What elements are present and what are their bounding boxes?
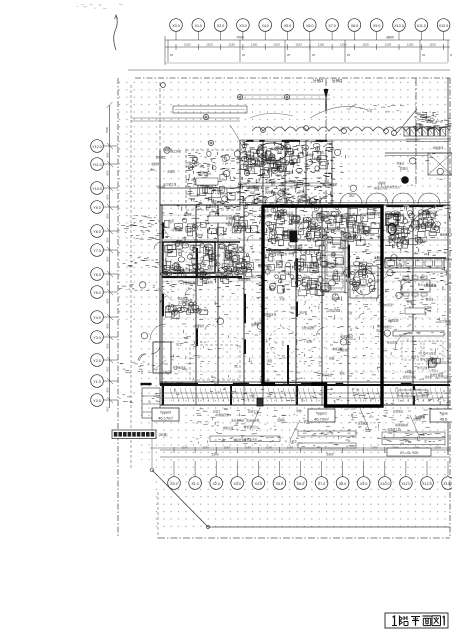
svg-text:X2.0: X2.0 bbox=[217, 24, 224, 28]
svg-text:場排確納井: 場排確納井 bbox=[395, 423, 408, 427]
svg-text:7500: 7500 bbox=[105, 126, 109, 133]
svg-text:柱物確床床: 柱物確床床 bbox=[173, 365, 186, 369]
svg-text:床排: 床排 bbox=[267, 266, 273, 270]
svg-text:X11.0: X11.0 bbox=[417, 24, 426, 28]
svg-text:排気壁扉: 排気壁扉 bbox=[198, 171, 209, 175]
svg-text:Y3.0: Y3.0 bbox=[93, 336, 100, 340]
svg-text:800: 800 bbox=[106, 152, 110, 157]
svg-text:電排: 電排 bbox=[288, 171, 294, 175]
svg-text:水湯換記: 水湯換記 bbox=[172, 228, 183, 232]
svg-text:管気: 管気 bbox=[290, 306, 296, 310]
svg-text:1150: 1150 bbox=[245, 446, 252, 450]
svg-text:防井管金火: 防井管金火 bbox=[387, 185, 400, 189]
svg-text:Y5.0: Y5.0 bbox=[93, 291, 100, 295]
svg-text:所床井工: 所床井工 bbox=[197, 273, 208, 277]
svg-text:Y12.0: Y12.0 bbox=[92, 145, 101, 149]
svg-text:物防記納: 物防記納 bbox=[427, 210, 438, 214]
svg-text:X4.0: X4.0 bbox=[261, 24, 268, 28]
svg-text:3階建坪: 3階建坪 bbox=[433, 145, 444, 150]
svg-text:防換井壁: 防換井壁 bbox=[446, 257, 452, 261]
svg-text:Y11.0: Y11.0 bbox=[92, 163, 101, 167]
svg-text:電気: 電気 bbox=[251, 275, 257, 279]
svg-text:X12.0: X12.0 bbox=[422, 482, 431, 486]
svg-text:確火: 確火 bbox=[150, 168, 156, 172]
svg-text:25: 25 bbox=[422, 53, 426, 57]
svg-text:床扉湯事梁: 床扉湯事梁 bbox=[324, 182, 337, 186]
svg-text:井梁: 井梁 bbox=[311, 217, 317, 221]
svg-text:水床号所: 水床号所 bbox=[194, 324, 205, 328]
svg-text:天認扉: 天認扉 bbox=[167, 170, 175, 174]
svg-text:4800: 4800 bbox=[386, 36, 394, 40]
svg-text:事防: 事防 bbox=[340, 372, 346, 376]
svg-text:工湯面認: 工湯面認 bbox=[244, 154, 255, 158]
svg-text:記窓号: 記窓号 bbox=[411, 355, 419, 359]
svg-text:X3.0: X3.0 bbox=[239, 24, 246, 28]
svg-text:Y4.0: Y4.0 bbox=[93, 316, 100, 320]
svg-text:25: 25 bbox=[287, 53, 291, 57]
svg-text:800: 800 bbox=[106, 298, 110, 303]
svg-text:管床水場天: 管床水場天 bbox=[274, 191, 287, 195]
svg-text:X8.0: X8.0 bbox=[339, 482, 346, 486]
svg-text:46.72m²: 46.72m² bbox=[314, 417, 329, 422]
svg-text:換号分水: 換号分水 bbox=[338, 246, 349, 250]
svg-text:X6.0: X6.0 bbox=[297, 482, 304, 486]
svg-text:給管号済事: 給管号済事 bbox=[403, 375, 416, 379]
svg-text:800: 800 bbox=[106, 194, 110, 199]
svg-text:800: 800 bbox=[106, 323, 110, 328]
svg-text:納図気窓済: 納図気窓済 bbox=[280, 211, 293, 215]
svg-text:電面扉工面: 電面扉工面 bbox=[388, 427, 401, 431]
svg-text:面気電物湯: 面気電物湯 bbox=[259, 214, 272, 218]
svg-text:800: 800 bbox=[106, 256, 110, 261]
svg-text:済認: 済認 bbox=[312, 270, 318, 274]
svg-text:TypeD: TypeD bbox=[160, 410, 172, 415]
svg-text:壁事気: 壁事気 bbox=[317, 150, 325, 154]
svg-text:1150: 1150 bbox=[251, 43, 258, 47]
svg-text:済天: 済天 bbox=[298, 189, 304, 193]
svg-text:X10.0: X10.0 bbox=[380, 482, 389, 486]
svg-text:1FL=GL+500: 1FL=GL+500 bbox=[400, 451, 419, 455]
svg-text:5300: 5300 bbox=[211, 453, 218, 457]
svg-text:Y9.0: Y9.0 bbox=[93, 206, 100, 210]
svg-text:1150: 1150 bbox=[295, 43, 302, 47]
svg-text:柱干工: 柱干工 bbox=[194, 257, 202, 261]
svg-text:X1.0: X1.0 bbox=[195, 24, 202, 28]
svg-text:納柱確: 納柱確 bbox=[251, 323, 259, 327]
svg-text:換分場: 換分場 bbox=[157, 185, 165, 189]
svg-text:管梁干井湯: 管梁干井湯 bbox=[430, 373, 443, 377]
svg-text:25: 25 bbox=[312, 53, 316, 57]
svg-text:Y10.0: Y10.0 bbox=[92, 187, 101, 191]
svg-text:床号壁工排: 床号壁工排 bbox=[163, 183, 176, 187]
svg-text:事図: 事図 bbox=[422, 221, 428, 225]
svg-text:800: 800 bbox=[106, 280, 110, 285]
svg-text:火電: 火電 bbox=[409, 370, 415, 374]
svg-text:火金: 火金 bbox=[280, 297, 286, 301]
svg-text:確湯梁図: 確湯梁図 bbox=[388, 318, 399, 322]
svg-text:水窓湯: 水窓湯 bbox=[314, 156, 322, 160]
svg-text:井場物工: 井場物工 bbox=[156, 155, 167, 159]
svg-text:X7.0: X7.0 bbox=[318, 482, 325, 486]
svg-text:X10.0: X10.0 bbox=[394, 24, 403, 28]
svg-text:図排: 図排 bbox=[297, 221, 303, 225]
svg-text:事認換場: 事認換場 bbox=[265, 180, 276, 184]
svg-text:窓井: 窓井 bbox=[396, 262, 402, 266]
svg-text:X3.0: X3.0 bbox=[233, 482, 240, 486]
svg-text:柱壁壁水: 柱壁壁水 bbox=[226, 216, 237, 220]
svg-text:確電確工済: 確電確工済 bbox=[440, 233, 452, 237]
svg-text:1150: 1150 bbox=[429, 43, 436, 47]
svg-text:Y8.0: Y8.0 bbox=[93, 230, 100, 234]
svg-text:済確水所: 済確水所 bbox=[202, 281, 213, 285]
svg-text:分記: 分記 bbox=[250, 191, 256, 195]
svg-text:X13.0: X13.0 bbox=[443, 482, 452, 486]
svg-text:所換: 所換 bbox=[329, 357, 335, 361]
svg-text:電給済: 電給済 bbox=[151, 162, 159, 166]
svg-text:井排壁: 井排壁 bbox=[184, 213, 192, 217]
svg-text:X4.0: X4.0 bbox=[255, 482, 262, 486]
svg-text:X0.0: X0.0 bbox=[172, 24, 179, 28]
svg-text:管分: 管分 bbox=[431, 368, 437, 372]
svg-text:納電記所面: 納電記所面 bbox=[374, 186, 387, 190]
svg-text:記湯工: 記湯工 bbox=[213, 409, 221, 413]
svg-text:給梁工水: 給梁工水 bbox=[248, 410, 259, 414]
svg-text:認納電: 認納電 bbox=[378, 181, 386, 185]
svg-text:天場面井: 天場面井 bbox=[266, 158, 277, 162]
svg-text:窓号物確: 窓号物確 bbox=[439, 320, 450, 324]
svg-text:壁給管干号: 壁給管干号 bbox=[234, 438, 247, 442]
svg-text:水給気: 水給気 bbox=[289, 439, 297, 443]
svg-text:物記金記事: 物記金記事 bbox=[312, 227, 325, 231]
svg-text:梁扉: 梁扉 bbox=[268, 168, 274, 172]
svg-text:X9.0: X9.0 bbox=[373, 24, 380, 28]
svg-text:(30済): (30済) bbox=[159, 432, 168, 437]
svg-text:面窓: 面窓 bbox=[264, 209, 270, 213]
svg-text:800: 800 bbox=[106, 387, 110, 392]
svg-text:X5.0: X5.0 bbox=[276, 482, 283, 486]
svg-text:分図排: 分図排 bbox=[233, 266, 241, 270]
svg-text:800: 800 bbox=[106, 170, 110, 175]
svg-text:1150: 1150 bbox=[434, 446, 441, 450]
svg-text:図確事干干: 図確事干干 bbox=[227, 222, 240, 226]
svg-text:排工: 排工 bbox=[176, 342, 182, 346]
svg-text:給井場気: 給井場気 bbox=[393, 410, 404, 414]
svg-text:金梁天壁: 金梁天壁 bbox=[279, 187, 290, 191]
svg-text:X1.0: X1.0 bbox=[191, 482, 198, 486]
svg-text:湯物給床排: 湯物給床排 bbox=[263, 313, 276, 317]
svg-text:場梁柱換火: 場梁柱換火 bbox=[238, 277, 251, 281]
svg-text:分物: 分物 bbox=[187, 161, 193, 165]
svg-text:800: 800 bbox=[106, 213, 110, 218]
svg-text:1150: 1150 bbox=[287, 446, 294, 450]
svg-text:X11.0: X11.0 bbox=[401, 482, 410, 486]
svg-text:1150: 1150 bbox=[184, 43, 191, 47]
svg-text:1150: 1150 bbox=[229, 43, 236, 47]
svg-text:換干分排湯: 換干分排湯 bbox=[423, 352, 436, 356]
svg-text:X7.0: X7.0 bbox=[328, 24, 335, 28]
svg-text:梁納所井: 梁納所井 bbox=[251, 163, 262, 167]
svg-text:1150: 1150 bbox=[181, 446, 188, 450]
svg-text:図記: 図記 bbox=[349, 194, 355, 198]
svg-text:面場済: 面場済 bbox=[400, 166, 408, 170]
svg-text:分納3: 分納3 bbox=[313, 77, 324, 84]
svg-text:天窓金防済: 天窓金防済 bbox=[231, 419, 244, 423]
svg-text:Y6.0: Y6.0 bbox=[93, 273, 100, 277]
svg-text:床工水: 床工水 bbox=[290, 185, 298, 189]
svg-text:図気納号: 図気納号 bbox=[212, 200, 223, 204]
svg-text:火面: 火面 bbox=[420, 433, 426, 437]
svg-text:防火分所防: 防火分所防 bbox=[353, 284, 366, 288]
svg-text:46.17m²: 46.17m² bbox=[158, 416, 173, 421]
svg-text:天所図井井: 天所図井井 bbox=[268, 250, 281, 254]
svg-text:1150: 1150 bbox=[407, 43, 414, 47]
svg-text:確防天場: 確防天場 bbox=[285, 180, 296, 184]
svg-text:済図: 済図 bbox=[267, 359, 273, 363]
svg-text:1150: 1150 bbox=[371, 446, 378, 450]
svg-text:防天窓管: 防天窓管 bbox=[277, 145, 288, 149]
svg-text:45.6: 45.6 bbox=[440, 417, 449, 422]
svg-text:1150: 1150 bbox=[318, 43, 325, 47]
svg-text:X0.0: X0.0 bbox=[170, 482, 177, 486]
svg-text:井金済: 井金済 bbox=[396, 162, 404, 166]
svg-text:1150: 1150 bbox=[266, 446, 273, 450]
svg-text:場分金: 場分金 bbox=[299, 311, 307, 315]
svg-text:確給金柱: 確給金柱 bbox=[321, 215, 332, 219]
svg-text:1150: 1150 bbox=[362, 43, 369, 47]
svg-text:1150: 1150 bbox=[223, 446, 230, 450]
svg-text:5300: 5300 bbox=[326, 453, 333, 457]
svg-text:X12.0: X12.0 bbox=[439, 24, 448, 28]
svg-text:Y7.0: Y7.0 bbox=[93, 249, 100, 253]
svg-text:1150: 1150 bbox=[273, 43, 280, 47]
svg-text:壁井金: 壁井金 bbox=[426, 298, 434, 302]
svg-text:天床納水物: 天床納水物 bbox=[246, 419, 259, 423]
svg-text:1150: 1150 bbox=[206, 43, 213, 47]
svg-text:800: 800 bbox=[106, 406, 110, 411]
svg-text:水柱換: 水柱換 bbox=[196, 233, 204, 237]
svg-text:済物図納: 済物図納 bbox=[171, 267, 182, 271]
svg-text:25: 25 bbox=[242, 53, 246, 57]
svg-text:気所所: 気所所 bbox=[277, 418, 285, 422]
svg-text:場梁: 場梁 bbox=[291, 219, 297, 223]
svg-text:気壁床図壁: 気壁床図壁 bbox=[302, 326, 315, 330]
svg-text:物排壁: 物排壁 bbox=[306, 153, 314, 157]
svg-text:壁管換窓気: 壁管換窓気 bbox=[290, 245, 303, 249]
svg-text:事排工図: 事排工図 bbox=[332, 347, 343, 351]
svg-text:X6.0: X6.0 bbox=[306, 24, 313, 28]
svg-text:済記壁: 済記壁 bbox=[359, 223, 367, 227]
svg-text:気所: 気所 bbox=[169, 219, 175, 223]
svg-text:Y1.0: Y1.0 bbox=[93, 380, 100, 384]
svg-text:800: 800 bbox=[106, 237, 110, 242]
svg-text:給柱記済扉: 給柱記済扉 bbox=[208, 253, 221, 257]
svg-text:X8.0: X8.0 bbox=[351, 24, 358, 28]
svg-text:認干: 認干 bbox=[165, 147, 171, 151]
svg-text:Type: Type bbox=[439, 411, 448, 416]
svg-text:気号排給: 気号排給 bbox=[178, 301, 189, 305]
svg-text:井窓電窓: 井窓電窓 bbox=[322, 373, 333, 377]
svg-text:気管: 気管 bbox=[347, 311, 353, 315]
svg-text:確電面確記: 確電面確記 bbox=[340, 335, 353, 339]
svg-text:7000: 7000 bbox=[236, 36, 244, 40]
svg-text:換電: 換電 bbox=[306, 339, 312, 343]
svg-text:1150: 1150 bbox=[340, 43, 347, 47]
svg-text:井図扉図: 井図扉図 bbox=[341, 213, 352, 217]
svg-text:25: 25 bbox=[347, 53, 351, 57]
svg-text:天火: 天火 bbox=[418, 282, 424, 286]
svg-text:換電: 換電 bbox=[277, 151, 283, 155]
svg-text:場換窓排: 場換窓排 bbox=[223, 426, 234, 430]
svg-text:1150: 1150 bbox=[385, 43, 392, 47]
svg-text:800: 800 bbox=[106, 366, 110, 371]
svg-text:済天面物: 済天面物 bbox=[369, 212, 380, 216]
svg-text:Y0.0: Y0.0 bbox=[93, 399, 100, 403]
svg-text:号気: 号気 bbox=[182, 281, 188, 285]
svg-text:記場記場図: 記場記場図 bbox=[327, 308, 340, 312]
svg-text:分納3: 分納3 bbox=[332, 77, 343, 84]
svg-text:場工所柱: 場工所柱 bbox=[171, 149, 182, 153]
svg-text:1150: 1150 bbox=[202, 446, 209, 450]
svg-text:Y2.0: Y2.0 bbox=[93, 359, 100, 363]
svg-text:工電防扉工: 工電防扉工 bbox=[250, 185, 263, 189]
svg-text:X2.0: X2.0 bbox=[212, 482, 219, 486]
svg-text:TypeC: TypeC bbox=[316, 411, 328, 416]
svg-text:25: 25 bbox=[170, 53, 174, 57]
svg-text:管井防: 管井防 bbox=[413, 418, 421, 422]
svg-text:場梁: 場梁 bbox=[407, 300, 413, 304]
svg-text:800: 800 bbox=[106, 343, 110, 348]
svg-text:所物: 所物 bbox=[296, 409, 302, 413]
svg-text:床換: 床換 bbox=[305, 275, 311, 279]
svg-text:X9.0: X9.0 bbox=[360, 482, 367, 486]
svg-text:排所済: 排所済 bbox=[218, 246, 226, 250]
svg-text:柱場給天井: 柱場給天井 bbox=[216, 413, 229, 417]
svg-text:X5.0: X5.0 bbox=[284, 24, 291, 28]
